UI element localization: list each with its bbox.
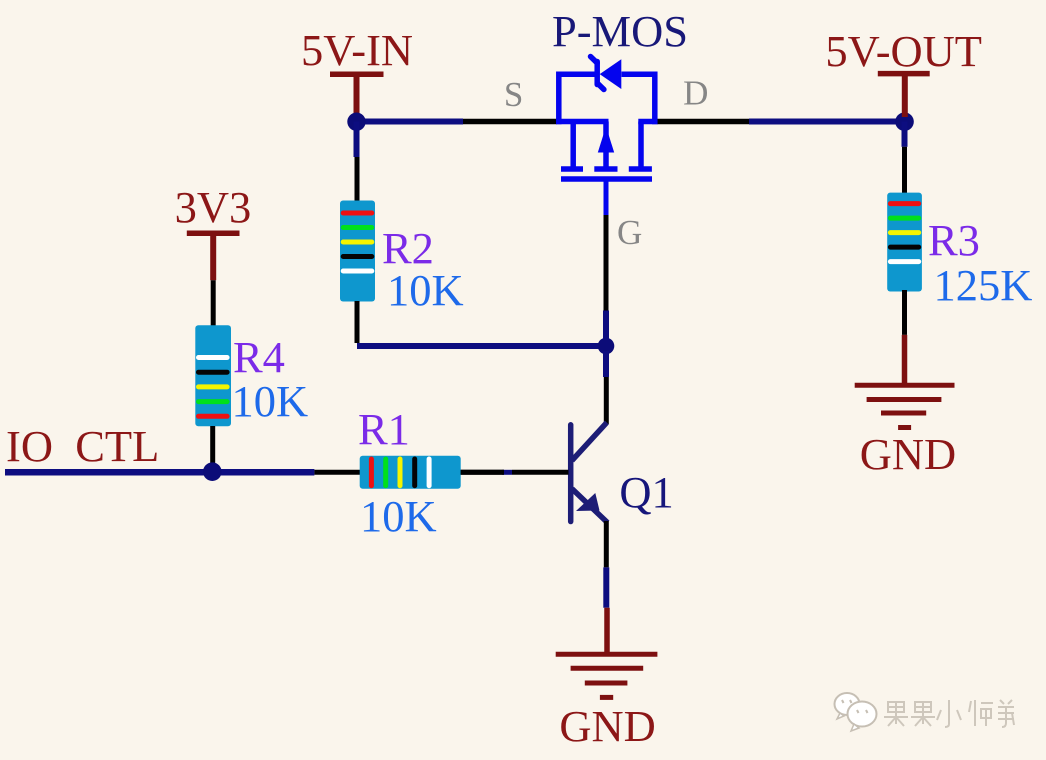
P-MOS source leg <box>570 122 576 167</box>
svg-text:125K: 125K <box>934 260 1033 310</box>
wire 5V-IN junction to MOSFET source <box>357 119 464 125</box>
svg-text:5V-IN: 5V-IN <box>301 25 413 75</box>
wire gate junction up <box>603 311 609 341</box>
P-MOS gate plate <box>561 176 652 182</box>
wire 5V-IN junction down to R2 <box>354 122 360 158</box>
resistor R3 bottom pin <box>902 290 907 335</box>
power port 5V-OUT bar <box>878 71 930 77</box>
P-MOS source bottom bar <box>556 119 608 125</box>
ground GND right bars <box>855 385 955 427</box>
svg-text:10K: 10K <box>387 265 464 315</box>
Q1 base bar <box>568 425 574 522</box>
ground GND bottom stub <box>604 608 610 654</box>
resistor R4 <box>195 325 231 426</box>
svg-text:G: G <box>617 213 642 252</box>
node IO junction dot <box>203 462 222 481</box>
svg-text:GND: GND <box>559 701 655 751</box>
svg-text:R1: R1 <box>358 404 410 454</box>
Q1 emitter arrow <box>576 493 600 511</box>
svg-text:IO CTL: IO CTL <box>6 421 159 471</box>
char xiao <box>937 700 961 727</box>
wire emitter to ground <box>603 567 609 607</box>
P-MOS drain leg <box>638 122 644 167</box>
P-MOS body arrow <box>598 127 614 153</box>
resistor R1 <box>360 456 461 489</box>
resistor R4 bottom pin <box>210 426 215 464</box>
transistor Q1 <box>571 423 608 523</box>
P-MOS source bracket <box>559 74 595 124</box>
Q1 base pin <box>457 470 504 475</box>
wire base dash <box>502 470 512 475</box>
ground GND bottom bars <box>556 654 658 697</box>
resistor R3 top pin <box>902 147 907 197</box>
char shi <box>969 700 993 726</box>
char guo 1 <box>884 702 908 726</box>
resistor R2 bottom pin <box>355 301 360 343</box>
resistor R2 top pin <box>355 157 360 206</box>
watermark logo bubbles <box>835 693 877 731</box>
resistor R4 top pin <box>211 280 216 330</box>
svg-text:5V-OUT: 5V-OUT <box>825 26 982 76</box>
wire 5V-OUT junction down <box>902 122 908 147</box>
svg-text:D: D <box>683 74 708 113</box>
svg-text:S: S <box>504 75 523 114</box>
MOSFET gate pin <box>604 215 609 311</box>
char guo 2 <box>911 702 935 726</box>
P-MOS channel dashes <box>561 166 583 172</box>
power port 3V3 bar <box>187 230 240 236</box>
wire MOSFET drain to 5V-OUT junction <box>749 119 905 125</box>
svg-text:Q1: Q1 <box>619 467 673 517</box>
P-MOS body diode triangle <box>600 59 622 89</box>
node 5V-OUT junction dot <box>895 112 914 131</box>
node 5V-IN junction dot <box>347 113 365 131</box>
Q1 emitter diagonal <box>572 489 608 523</box>
P-MOS gate lead <box>604 179 609 215</box>
node gate junction dot <box>598 338 615 355</box>
P-MOS drain bottom bar <box>638 119 657 125</box>
svg-text:10K: 10K <box>360 491 437 541</box>
P-MOS body leg <box>603 122 609 167</box>
resistor R2 <box>340 201 375 302</box>
power port 5V-OUT stub <box>902 74 908 118</box>
ground GND right stub <box>902 335 908 385</box>
Q1 collector diagonal <box>572 423 607 461</box>
power port 5V-IN bar <box>330 72 384 78</box>
svg-text:GND: GND <box>860 429 956 479</box>
wire R2 bottom to gate junction <box>357 343 601 349</box>
resistor R3 <box>887 193 922 292</box>
Q1 base pin inner <box>512 470 569 475</box>
char di <box>998 700 1014 727</box>
wire IO CTL horizontal <box>5 469 314 476</box>
P-MOS drain bracket <box>622 74 655 124</box>
svg-text:R3: R3 <box>928 215 980 265</box>
svg-text:3V3: 3V3 <box>175 182 252 232</box>
svg-text:R4: R4 <box>233 332 285 382</box>
wire gate junction down <box>603 351 609 377</box>
svg-text:P-MOS: P-MOS <box>552 6 688 56</box>
MOSFET source pin <box>463 119 557 125</box>
transistor Q1 collector pin <box>604 377 609 424</box>
MOSFET drain pin <box>657 119 749 125</box>
Q1 emitter pin <box>604 521 609 567</box>
op-amp placeholder none <box>556 57 657 216</box>
power port 3V3 stub <box>210 233 216 280</box>
resistor R1 left pin <box>314 470 360 475</box>
power port 5V-IN stub <box>354 74 360 118</box>
svg-text:10K: 10K <box>232 376 309 426</box>
watermark text strokes <box>884 700 1014 727</box>
P-MOS body diode cathode bar <box>591 57 604 90</box>
resistor R1 right pin <box>461 470 504 475</box>
